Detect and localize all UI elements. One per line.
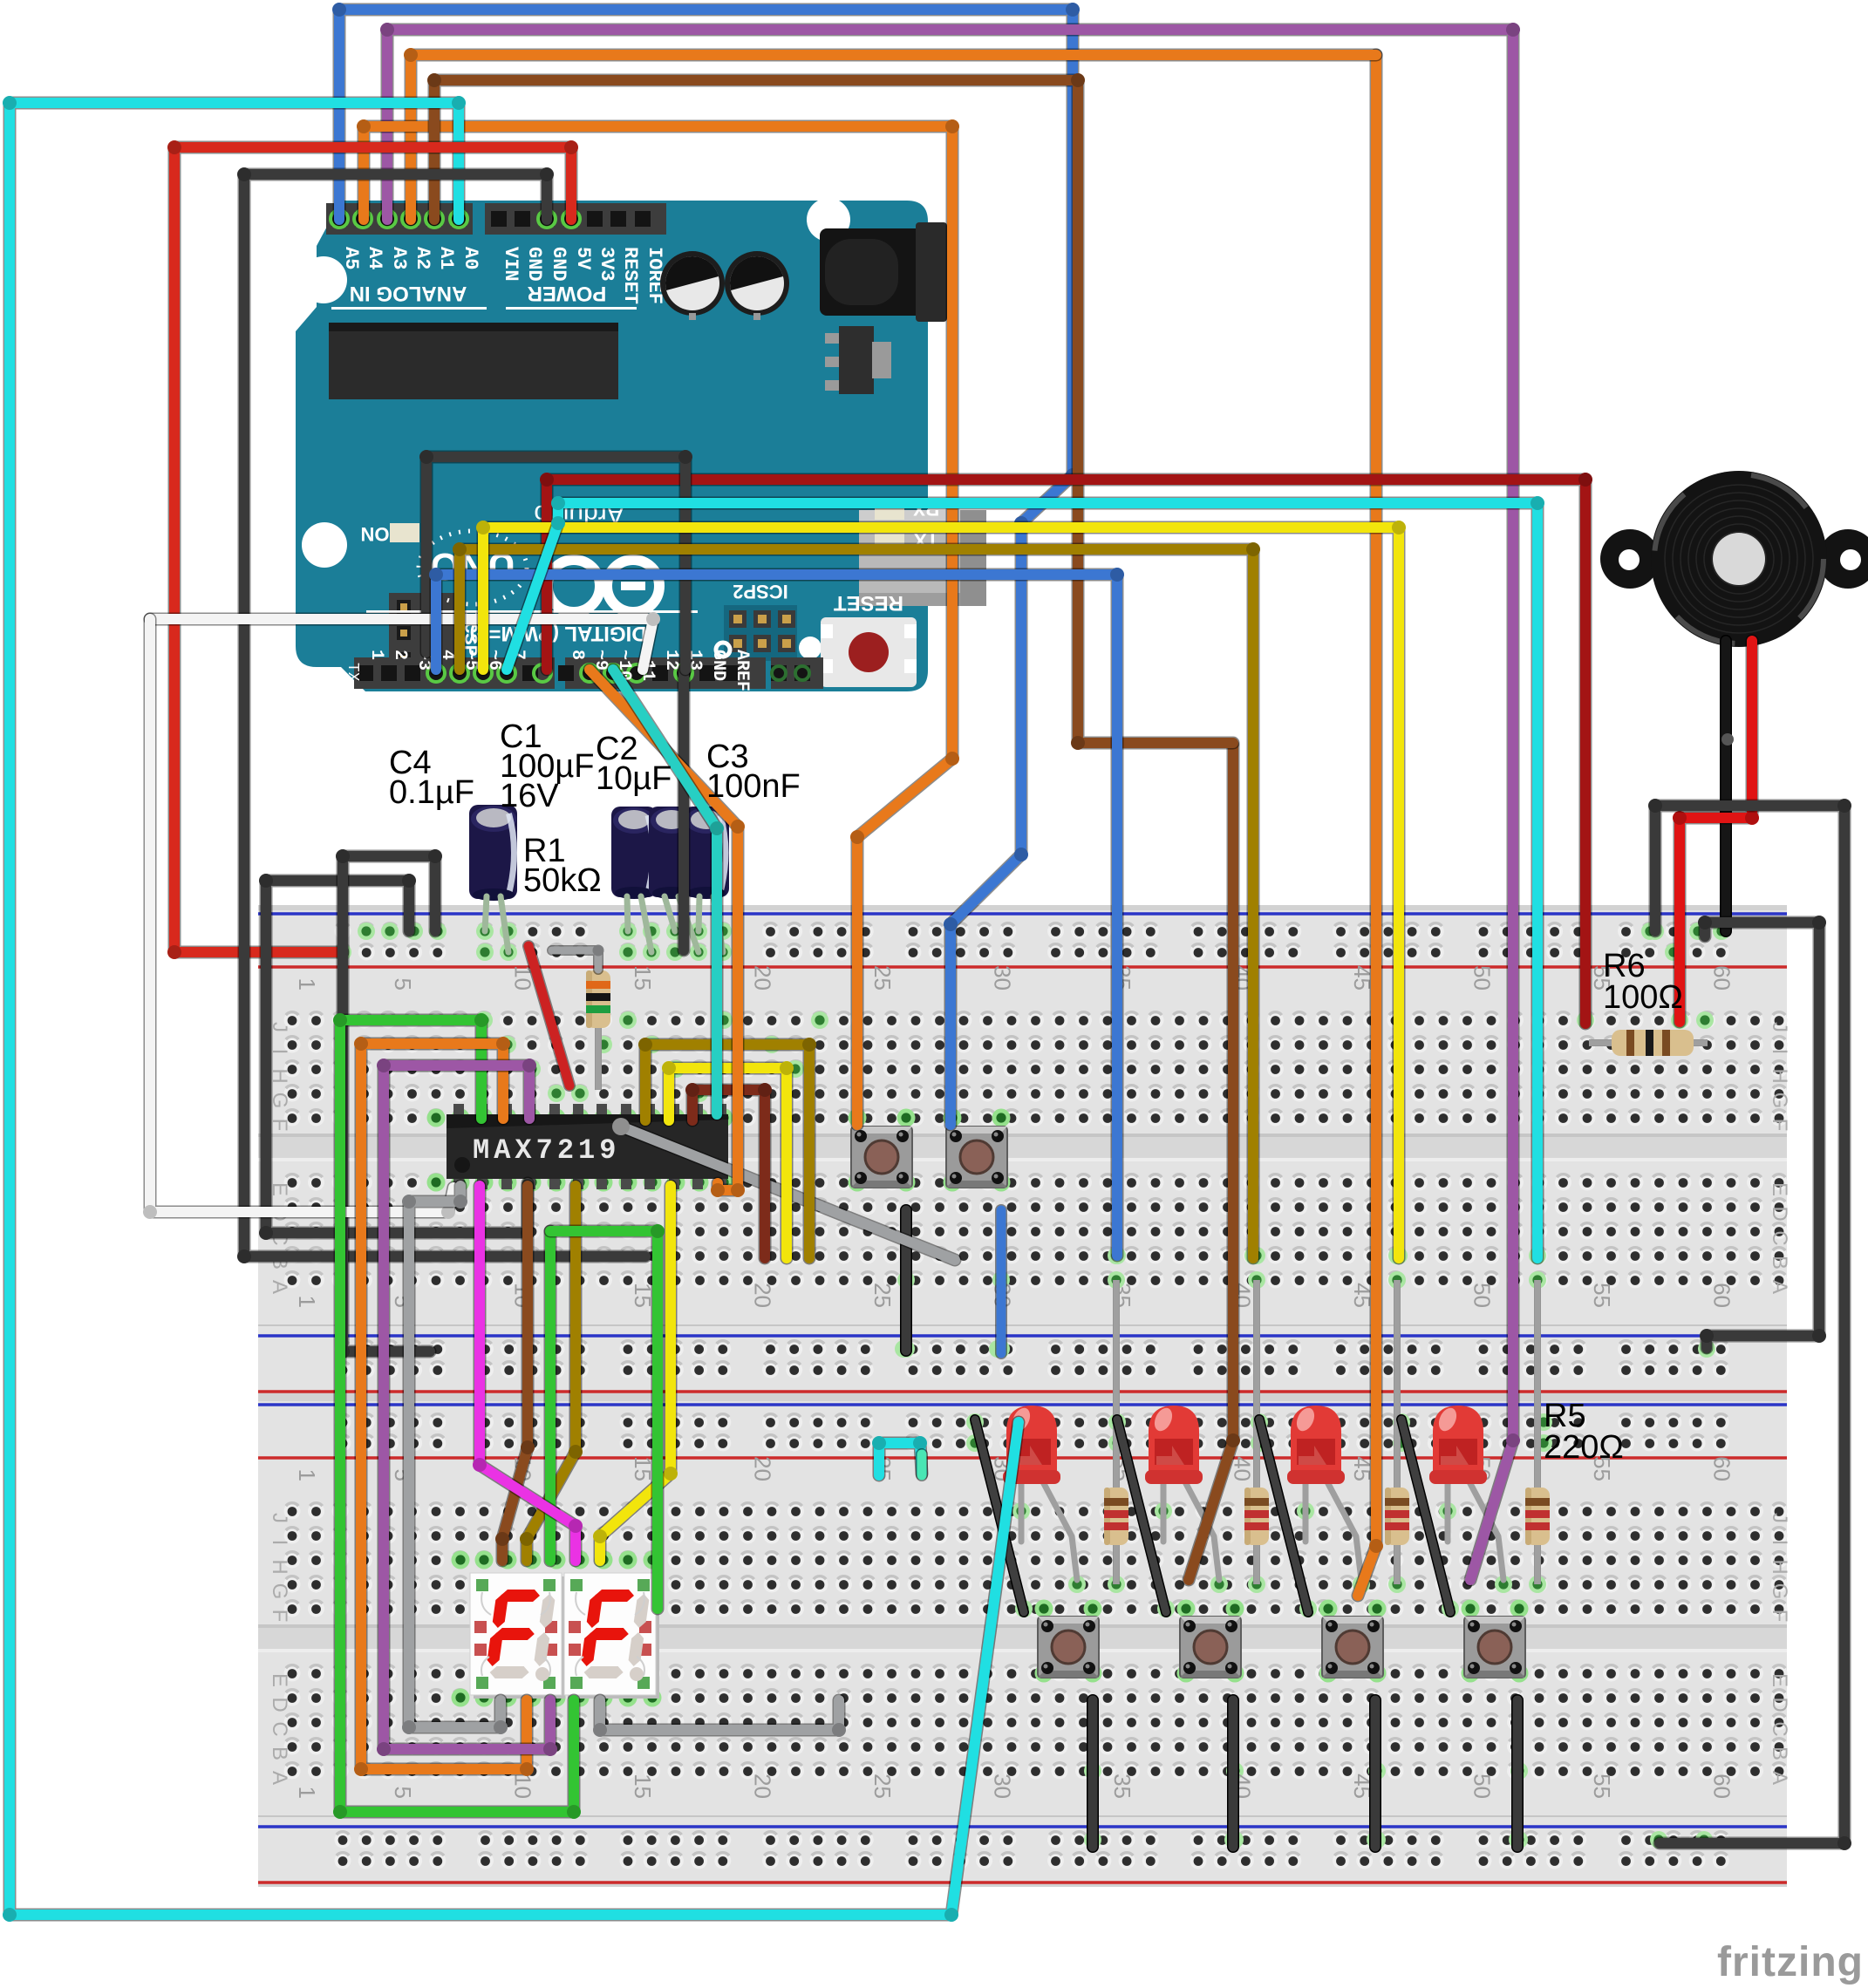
svg-text:D: D <box>268 1697 291 1712</box>
svg-text:16V: 16V <box>500 778 559 814</box>
svg-text:20: 20 <box>750 1283 776 1308</box>
svg-text:F: F <box>1768 1119 1791 1132</box>
svg-text:50: 50 <box>1469 965 1496 991</box>
svg-text:RESET: RESET <box>834 591 903 615</box>
svg-text:C: C <box>268 1721 291 1736</box>
svg-text:fritzing: fritzing <box>1717 1939 1864 1985</box>
svg-text:20: 20 <box>750 965 776 991</box>
svg-text:TX: TX <box>344 663 361 682</box>
svg-text:15: 15 <box>630 965 656 991</box>
svg-text:30: 30 <box>990 965 1016 991</box>
svg-text:1: 1 <box>294 978 320 991</box>
svg-text:15: 15 <box>630 1774 656 1799</box>
svg-text:A4: A4 <box>364 247 385 269</box>
svg-text:RESET: RESET <box>619 247 641 304</box>
svg-text:60: 60 <box>1709 965 1735 991</box>
svg-text:1: 1 <box>294 1469 320 1481</box>
svg-text:0.1µF: 0.1µF <box>389 774 474 811</box>
svg-text:G: G <box>1768 1093 1791 1109</box>
svg-text:MAX7219: MAX7219 <box>473 1134 620 1167</box>
svg-text:G: G <box>268 1583 291 1600</box>
svg-text:I: I <box>1768 1049 1791 1055</box>
svg-text:100Ω: 100Ω <box>1603 979 1683 1016</box>
svg-text:55: 55 <box>1589 1774 1615 1799</box>
svg-text:A: A <box>1768 1771 1791 1785</box>
svg-text:100nF: 100nF <box>706 768 801 805</box>
svg-text:2: 2 <box>390 650 410 660</box>
svg-text:D: D <box>1768 1697 1791 1712</box>
svg-text:GND: GND <box>548 247 569 282</box>
svg-text:5V: 5V <box>572 247 594 270</box>
svg-text:E: E <box>1768 1673 1791 1687</box>
svg-text:3V3: 3V3 <box>596 247 617 282</box>
svg-text:50: 50 <box>1469 1774 1496 1799</box>
svg-text:ON: ON <box>361 523 390 545</box>
svg-text:J: J <box>1768 1022 1791 1032</box>
svg-text:VIN: VIN <box>500 247 522 282</box>
svg-text:E: E <box>1768 1182 1791 1196</box>
svg-text:I: I <box>268 1540 291 1546</box>
svg-text:H: H <box>1768 1068 1791 1083</box>
svg-text:220Ω: 220Ω <box>1544 1429 1624 1466</box>
svg-text:20: 20 <box>750 1456 776 1481</box>
svg-text:20: 20 <box>750 1774 776 1799</box>
svg-text:A: A <box>268 1280 291 1294</box>
svg-text:50kΩ: 50kΩ <box>523 862 602 899</box>
svg-text:B: B <box>1768 1746 1791 1760</box>
svg-text:F: F <box>1768 1610 1791 1623</box>
svg-text:1: 1 <box>294 1787 320 1799</box>
svg-text:C: C <box>1768 1230 1791 1245</box>
svg-text:A0: A0 <box>460 247 481 269</box>
svg-text:A: A <box>268 1771 291 1785</box>
svg-text:A3: A3 <box>388 247 410 269</box>
svg-text:5: 5 <box>390 1787 416 1799</box>
svg-text:A: A <box>1768 1280 1791 1294</box>
svg-text:AREF: AREF <box>732 650 752 691</box>
svg-text:5: 5 <box>390 978 416 991</box>
svg-text:A5: A5 <box>340 247 362 269</box>
svg-text:D: D <box>1768 1206 1791 1221</box>
svg-text:60: 60 <box>1709 1774 1735 1799</box>
svg-text:35: 35 <box>1109 1774 1135 1799</box>
svg-text:H: H <box>268 1559 291 1574</box>
svg-text:10: 10 <box>510 1774 536 1799</box>
svg-text:50: 50 <box>1469 1283 1496 1308</box>
svg-text:B: B <box>268 1746 291 1760</box>
svg-text:B: B <box>1768 1256 1791 1270</box>
svg-text:A1: A1 <box>435 247 457 269</box>
svg-text:30: 30 <box>990 1774 1016 1799</box>
svg-text:A2: A2 <box>412 247 433 269</box>
svg-text:ICSP2: ICSP2 <box>733 581 788 603</box>
svg-text:10µF: 10µF <box>596 760 672 797</box>
svg-text:E: E <box>268 1673 291 1687</box>
svg-text:I: I <box>1768 1540 1791 1546</box>
svg-text:1: 1 <box>294 1296 320 1308</box>
svg-text:F: F <box>268 1610 291 1623</box>
svg-text:POWER: POWER <box>528 282 607 305</box>
svg-text:C: C <box>1768 1721 1791 1736</box>
svg-text:60: 60 <box>1709 1283 1735 1308</box>
svg-text:25: 25 <box>869 965 896 991</box>
svg-text:GND: GND <box>523 247 545 282</box>
svg-text:J: J <box>1768 1513 1791 1523</box>
svg-text:60: 60 <box>1709 1456 1735 1481</box>
svg-text:H: H <box>1768 1559 1791 1574</box>
svg-text:25: 25 <box>869 1283 896 1308</box>
svg-text:G: G <box>1768 1583 1791 1600</box>
svg-text:ANALOG IN: ANALOG IN <box>350 282 467 305</box>
svg-text:55: 55 <box>1589 1283 1615 1308</box>
svg-text:1: 1 <box>366 650 386 660</box>
svg-text:J: J <box>268 1513 291 1523</box>
svg-text:8: 8 <box>567 650 587 660</box>
svg-text:25: 25 <box>869 1774 896 1799</box>
